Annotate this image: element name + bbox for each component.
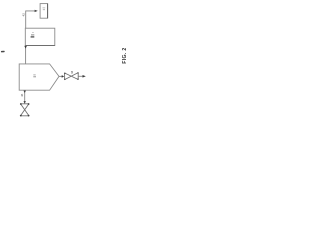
tank internal label marks [32, 32, 34, 34]
pentagon internal label marks [33, 74, 35, 76]
svg-text:FIG. 2: FIG. 2 [122, 47, 128, 63]
svg-text:46: 46 [20, 93, 24, 97]
arrowhead into condenser box [35, 10, 38, 12]
valve V2 corner ink dots [20, 103, 22, 105]
vessel rectangle bottom edge (darker ink) [25, 45, 55, 47]
wire: rectangle bottom to pentagon top [25, 46, 27, 64]
arrowhead out of pentagon tip [59, 75, 62, 77]
condenser box right edge (darker) [47, 4, 49, 19]
svg-text:44: 44 [70, 70, 74, 73]
condenser internal mark [43, 8, 46, 10]
valve V1 corner ink dots [64, 73, 65, 74]
svg-text:42: 42 [22, 13, 26, 17]
arrowhead below pentagon [24, 91, 26, 93]
wire: pentagon bottom drain down to valve V2 [24, 90, 26, 103]
valve V2 (vertical bowtie) [21, 104, 29, 116]
arrowhead into valve V2 [24, 101, 26, 103]
pentagon vessel (tank with conical outlet) [19, 64, 59, 90]
valve V1 (horizontal bowtie) [65, 73, 79, 80]
vessel rectangle (upper tank) [25, 28, 55, 45]
condenser box U1 [40, 4, 48, 19]
reference dash at left margin [1, 51, 5, 53]
wire: riser from rectangle top, up and over to condenser box [26, 11, 35, 28]
wire: valve V1 outlet [78, 75, 82, 77]
background [0, 0, 130, 120]
arrowhead outlet right [83, 75, 86, 78]
arrowhead downward below rectangle [24, 46, 27, 49]
